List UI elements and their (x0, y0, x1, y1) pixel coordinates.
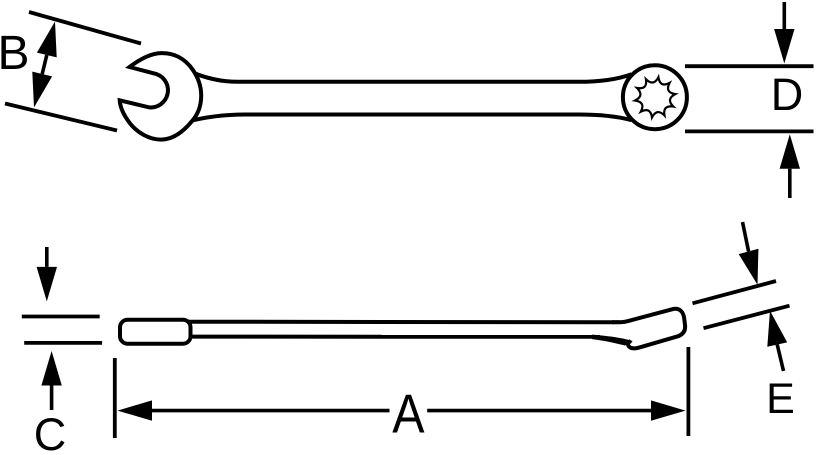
svg-text:E: E (766, 375, 795, 423)
svg-text:D: D (771, 69, 804, 120)
dimension B arrow lower (32, 72, 52, 108)
dimension C arrow upper (37, 267, 57, 302)
wrench top view: open-end head (120, 53, 202, 140)
dimension E arrow upper (739, 249, 759, 285)
dimension A extension line left (113, 358, 117, 438)
dimension A arrow left (118, 400, 153, 420)
dimension D extension line lower (685, 129, 814, 133)
dimension C extension line lower (24, 341, 102, 345)
wrench top view: box end 12-point socket (635, 77, 675, 117)
dimension A extension line right (687, 347, 691, 436)
svg-text:A: A (392, 383, 425, 445)
dimension B arrow upper (37, 22, 57, 58)
dimension C extension line upper (22, 315, 100, 319)
wrench side view: ring edge wedge (592, 335, 633, 346)
dimension E arrow lower (767, 311, 787, 347)
dimension E extension line lower (704, 306, 790, 329)
dimension D arrow lower (780, 134, 800, 169)
wrench top view: box end outer ring (623, 65, 687, 129)
wrench top view: shaft bottom edge with neck curves (187, 115, 632, 122)
wrench side view: shaft bottom edge (188, 335, 600, 339)
svg-text:B: B (0, 27, 30, 80)
svg-text:C: C (34, 409, 67, 455)
wrench side view: shaft top edge (188, 320, 620, 325)
dimension B arrow shaft (42, 55, 47, 74)
dimension D extension line upper (685, 64, 814, 68)
dimension B extension line upper (29, 12, 141, 44)
wrench side view: open-end head profile (120, 320, 191, 344)
dimension C arrow lower (41, 351, 61, 386)
dimension E extension line upper (693, 281, 777, 303)
dimension A arrow right (651, 400, 686, 420)
wrench side view: box end angled head (612, 309, 685, 349)
wrench top view: shaft top edge with neck curves (189, 71, 632, 82)
dimension B extension line lower (5, 104, 117, 131)
dimension D arrow upper (774, 29, 794, 64)
